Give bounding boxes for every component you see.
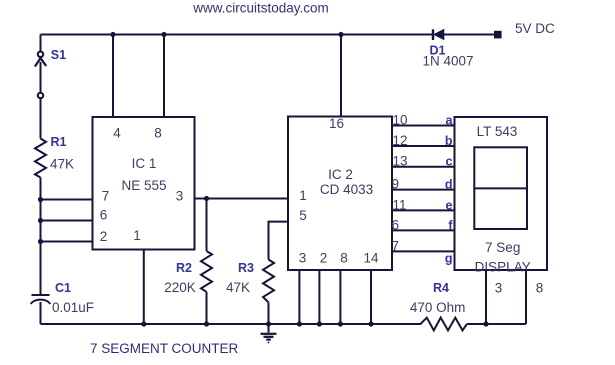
node pin8 rail junction <box>161 32 166 37</box>
svg-text:4: 4 <box>113 126 121 141</box>
node IC2 pin3 rail junction <box>297 321 302 326</box>
svg-text:g: g <box>445 251 453 265</box>
counter IC U2 box <box>288 117 392 271</box>
diode D1 <box>433 29 444 40</box>
svg-text:DISPLAY: DISPLAY <box>475 260 531 275</box>
svg-text:a: a <box>446 114 454 128</box>
svg-text:10: 10 <box>393 113 408 128</box>
wire R1 down to C1 <box>40 178 42 296</box>
wire to IC1 pin7 <box>41 199 93 201</box>
wire display pin3 down <box>485 270 487 324</box>
svg-text:1N 4007: 1N 4007 <box>422 54 473 69</box>
svg-text:2: 2 <box>100 229 108 244</box>
svg-text:7: 7 <box>102 189 110 204</box>
svg-text:R4: R4 <box>433 281 449 295</box>
wire to IC1 pin6 <box>41 220 93 222</box>
svg-text:8: 8 <box>340 251 348 266</box>
wire segment c <box>392 166 455 168</box>
wire top-left corner down <box>40 35 42 52</box>
node R2 rail junction <box>204 321 209 326</box>
svg-text:R1: R1 <box>51 135 67 149</box>
svg-text:1: 1 <box>299 188 307 203</box>
svg-text:c: c <box>446 155 453 169</box>
svg-text:S1: S1 <box>51 48 66 62</box>
wire diode to terminal <box>443 34 494 36</box>
op-amp timer IC U1 box <box>93 117 195 250</box>
wire segment d <box>392 189 455 191</box>
node pin2 junction <box>38 239 43 244</box>
svg-text:6: 6 <box>100 208 108 223</box>
switch S1 <box>35 52 45 99</box>
svg-text:47K: 47K <box>50 157 74 172</box>
svg-text:0.01uF: 0.01uF <box>52 300 94 315</box>
node R2 top junction <box>204 196 209 201</box>
svg-text:C1: C1 <box>55 281 71 295</box>
seven segment glyph <box>474 147 527 229</box>
node pin6 junction <box>38 218 43 223</box>
wire S1 to R1 <box>40 98 42 138</box>
svg-text:NE 555: NE 555 <box>121 178 166 193</box>
svg-text:7 Seg: 7 Seg <box>485 240 520 255</box>
capacitor C1 <box>31 295 50 324</box>
svg-text:47K: 47K <box>226 280 250 295</box>
svg-text:3: 3 <box>299 251 307 266</box>
resistor R3 <box>263 260 274 325</box>
node pin16 rail junction <box>338 32 343 37</box>
svg-text:e: e <box>446 198 453 212</box>
svg-text:7 SEGMENT COUNTER: 7 SEGMENT COUNTER <box>90 341 239 356</box>
svg-text:7: 7 <box>392 238 400 253</box>
svg-text:1: 1 <box>133 228 141 243</box>
svg-text:3: 3 <box>176 189 184 204</box>
node IC2 pin2 rail junction <box>317 321 322 326</box>
svg-text:11: 11 <box>393 197 407 212</box>
node display pin3 rail junction <box>483 321 488 326</box>
top rail wire <box>41 34 434 36</box>
wire display pin8 down <box>525 270 527 324</box>
wire IC2 pin14 down <box>370 270 372 324</box>
node pin4 rail junction <box>110 32 115 37</box>
bottom rail wire <box>41 323 422 325</box>
wire IC2 pin16 <box>340 35 342 117</box>
svg-text:9: 9 <box>392 177 400 192</box>
svg-text:CD 4033: CD 4033 <box>320 182 373 197</box>
node IC2 pin14 rail junction <box>368 321 373 326</box>
resistor R1 <box>35 139 46 178</box>
svg-text:b: b <box>445 134 453 148</box>
svg-text:3: 3 <box>495 280 503 295</box>
wire segment e <box>392 209 455 211</box>
svg-text:www.circuitstoday.com: www.circuitstoday.com <box>192 1 329 16</box>
ground <box>261 324 277 343</box>
resistor R4 <box>421 318 467 331</box>
wire IC2 pin3 down <box>298 270 300 324</box>
wire IC2 pin5 to R3 <box>269 222 289 260</box>
svg-text:470 Ohm: 470 Ohm <box>410 300 466 315</box>
svg-text:LT 543: LT 543 <box>477 124 518 139</box>
wire IC1 pin8 <box>163 35 165 118</box>
svg-text:12: 12 <box>393 133 408 148</box>
svg-text:R3: R3 <box>238 261 254 275</box>
svg-text:R2: R2 <box>176 261 192 275</box>
svg-text:16: 16 <box>329 116 344 131</box>
display U3 box <box>455 117 548 270</box>
node R3 rail junction <box>266 321 271 326</box>
node IC2 pin8 rail junction <box>338 321 343 326</box>
wire segment g <box>392 250 455 252</box>
svg-text:d: d <box>445 178 453 192</box>
svg-text:IC 1: IC 1 <box>132 156 157 171</box>
wire IC1 pin1 down <box>143 250 145 325</box>
wire IC1 pin4 <box>112 35 114 118</box>
wire IC2 pin2 down <box>318 270 320 324</box>
svg-text:5V DC: 5V DC <box>515 21 555 36</box>
svg-text:8: 8 <box>536 280 544 295</box>
svg-text:220K: 220K <box>164 280 196 295</box>
resistor R2 <box>201 199 212 325</box>
wire segment b <box>392 145 455 147</box>
wire segment a <box>392 125 455 127</box>
node IC1 pin1 rail junction <box>141 321 146 326</box>
svg-text:14: 14 <box>363 251 379 266</box>
svg-text:6: 6 <box>392 217 400 232</box>
wire IC2 pin8 down <box>339 270 341 324</box>
terminal 5V DC square <box>494 31 502 39</box>
svg-text:5: 5 <box>299 208 307 223</box>
wire to IC1 pin2 <box>41 241 93 243</box>
wire IC1 pin3 to IC2 pin1 <box>195 198 289 200</box>
bottom rail wire right of R4 <box>467 323 526 325</box>
svg-text:8: 8 <box>154 126 162 141</box>
svg-text:13: 13 <box>393 154 408 169</box>
svg-text:2: 2 <box>320 251 328 266</box>
wire segment f <box>392 229 455 231</box>
svg-text:IC 2: IC 2 <box>328 167 353 182</box>
node pin7 junction <box>38 197 43 202</box>
